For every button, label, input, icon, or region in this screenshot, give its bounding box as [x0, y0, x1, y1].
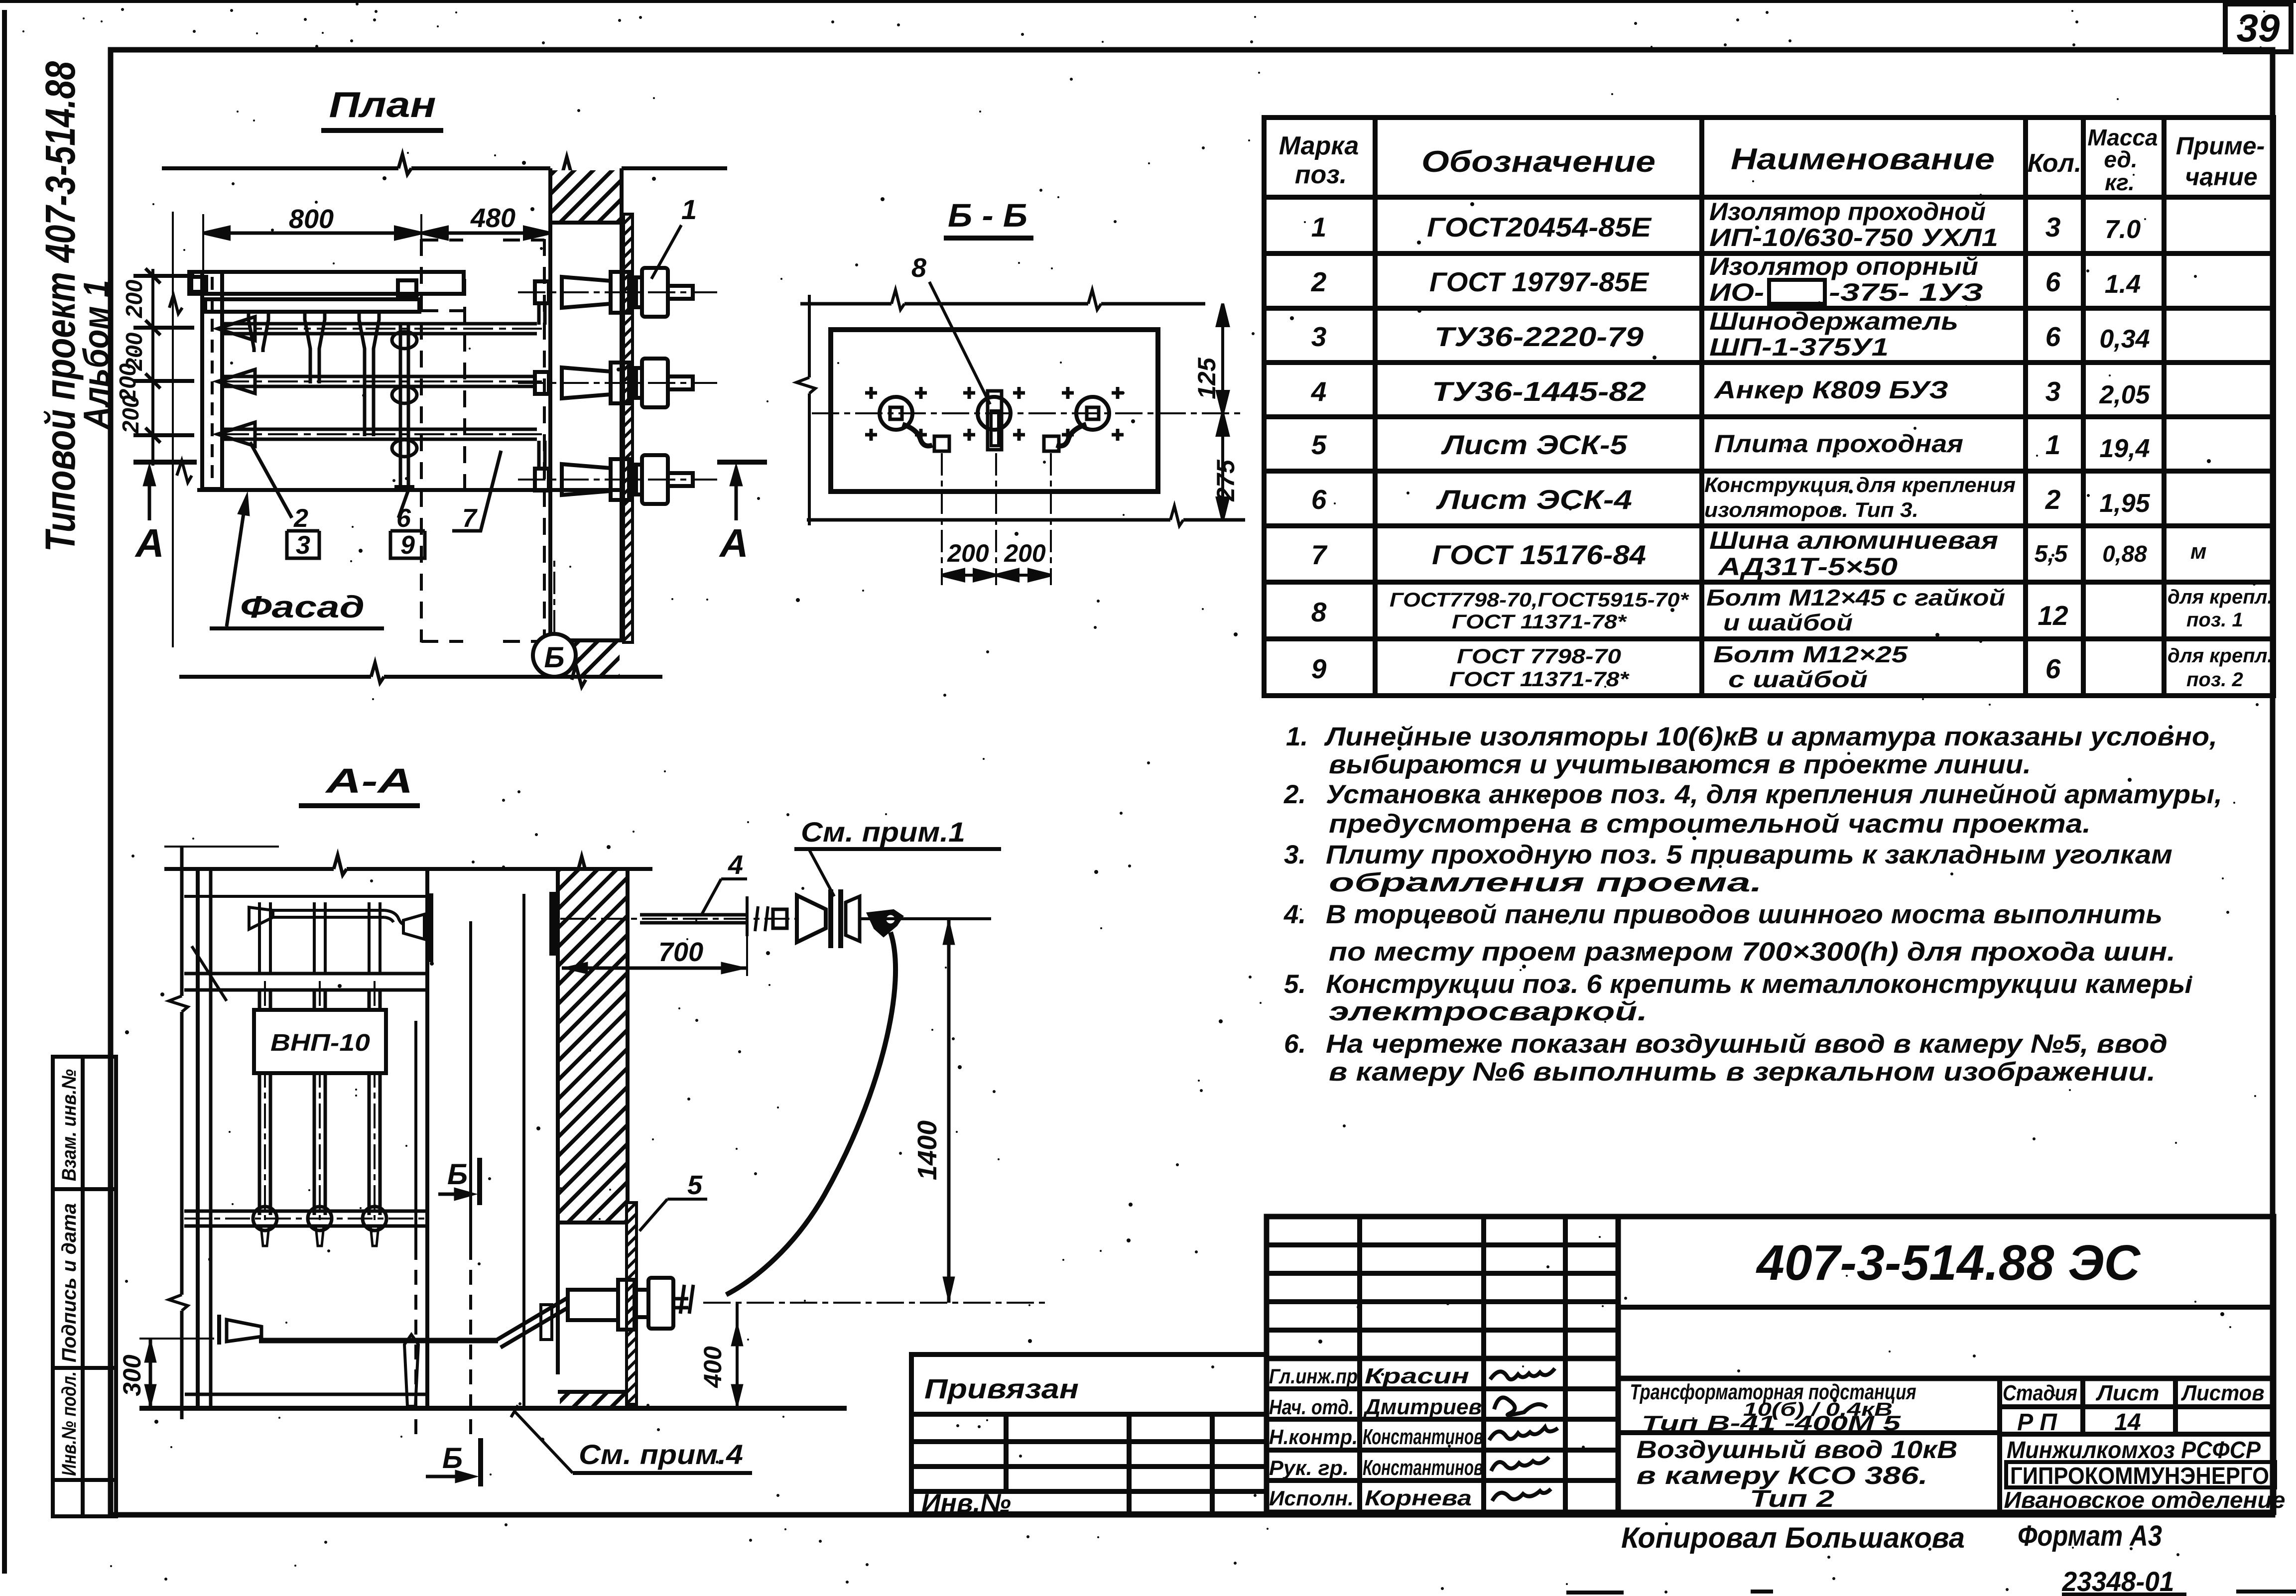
svg-text:Минжилкомхоз РСФСР: Минжилкомхоз РСФСР — [2007, 1437, 2261, 1464]
svg-text:Б: Б — [544, 641, 564, 674]
svg-text:и шайбой: и шайбой — [1723, 610, 1853, 635]
diagonal brace — [192, 946, 227, 1001]
organization — [2004, 1437, 2286, 1513]
busbar row 3 — [218, 422, 548, 446]
plate outline — [831, 330, 1158, 491]
bottom bus and cone — [185, 1298, 569, 1406]
svg-text:2: 2 — [293, 504, 308, 533]
privyazan box — [911, 1354, 1267, 1514]
svg-text:Б - Б: Б - Б — [948, 197, 1027, 234]
signature rows — [1267, 1386, 1618, 1391]
svg-text:Взам. инв.№: Взам. инв.№ — [58, 1069, 80, 1181]
stadia list listov — [2080, 1378, 2085, 1434]
svg-text:См. прим.4: См. прим.4 — [579, 1439, 743, 1470]
dashed hidden lines — [416, 921, 471, 1439]
svg-text:9: 9 — [400, 531, 415, 560]
svg-text:3: 3 — [1311, 321, 1327, 352]
svg-text:обрамления проема.: обрамления проема. — [1329, 868, 1762, 897]
svg-text:3: 3 — [2045, 212, 2061, 243]
svg-text:5: 5 — [1311, 429, 1327, 460]
svg-text:Приме-: Приме- — [2176, 132, 2265, 160]
svg-text:Обозначение: Обозначение — [1421, 145, 1656, 178]
small square symbol in row 2 name — [1769, 280, 1825, 304]
dim 200 200 — [942, 570, 1051, 581]
right support поз.6 — [392, 323, 417, 487]
plan bottom boundary line — [179, 663, 662, 687]
dimension 800/480 — [203, 214, 550, 329]
signature names — [1363, 1364, 1483, 1510]
svg-text:Тип В-41 -400М 5: Тип В-41 -400М 5 — [1642, 1411, 1901, 1435]
svg-text:Болт М12×25: Болт М12×25 — [1713, 641, 1909, 667]
svg-text:Константинов: Константинов — [1363, 1425, 1483, 1449]
svg-text:9: 9 — [1311, 653, 1327, 684]
flexible jumper curve — [726, 932, 895, 1295]
col 1 position numbers — [1311, 212, 1328, 684]
svg-text:для крепл.: для крепл. — [2168, 645, 2273, 667]
hidden dashed rectangle of frame — [421, 239, 544, 642]
svg-text:-375- 1УЗ: -375- 1УЗ — [1829, 278, 1983, 306]
svg-text:6: 6 — [1311, 484, 1327, 515]
svg-text:19,4: 19,4 — [2099, 434, 2150, 463]
svg-text:Дмитриев: Дмитриев — [1363, 1395, 1482, 1419]
svg-text:Корнева: Корнева — [1365, 1486, 1472, 1510]
svg-text:ИО-: ИО- — [1709, 278, 1764, 306]
svg-text:с шайбой: с шайбой — [1728, 666, 1868, 692]
svg-text:Шинодержатель: Шинодержатель — [1709, 307, 1958, 335]
col 2 designations — [1390, 212, 1690, 691]
busbar row 1 — [218, 317, 548, 341]
signatures squiggles — [1489, 1368, 1558, 1501]
product name — [1630, 1380, 1958, 1512]
svg-text:План: План — [329, 85, 436, 125]
svg-text:Установка анкеров поз. 4, дл: Установка анкеров поз. 4, для крепления … — [1326, 780, 2222, 809]
svg-text:3: 3 — [296, 531, 310, 560]
svg-text:4: 4 — [1311, 376, 1327, 407]
svg-text:800: 800 — [289, 204, 334, 234]
svg-text:ГОСТ 11371-78*: ГОСТ 11371-78* — [1452, 611, 1628, 633]
dim 125 / 275 right — [1217, 304, 1228, 520]
svg-text:3: 3 — [2045, 376, 2061, 407]
svg-text:Лист ЭСК-4: Лист ЭСК-4 — [1435, 484, 1632, 515]
bolt group left — [880, 397, 949, 451]
lower bushing through plate — [568, 1278, 1046, 1330]
col 3 names — [1704, 198, 2016, 692]
svg-text:4: 4 — [728, 850, 743, 880]
svg-text:125: 125 — [1193, 357, 1221, 399]
dim 1400 — [943, 919, 955, 1303]
svg-text:2: 2 — [2045, 484, 2061, 515]
ВНП-10 box — [254, 1010, 386, 1073]
left dim chain 200s — [133, 212, 194, 647]
svg-text:м: м — [2190, 539, 2207, 564]
wall band verticals — [550, 168, 622, 677]
svg-text:ВНП-10: ВНП-10 — [270, 1030, 370, 1056]
svg-text:7: 7 — [1311, 539, 1328, 570]
svg-text:6: 6 — [396, 504, 411, 533]
svg-text:электросваркой.: электросваркой. — [1329, 997, 1648, 1026]
top bar of structure — [189, 272, 464, 312]
svg-text:407-3-514.88 ЭС: 407-3-514.88 ЭС — [1756, 1235, 2141, 1291]
svg-text:Конструкция для крепления: Конструкция для крепления — [1704, 473, 2016, 496]
embedded plate on wall face — [426, 893, 433, 962]
dim 400 — [731, 1303, 743, 1408]
svg-text:Инв.№: Инв.№ — [921, 1489, 1011, 1518]
svg-text:А: А — [134, 521, 164, 565]
svg-text:Анкер К809 БУЗ: Анкер К809 БУЗ — [1713, 376, 1948, 404]
svg-text:Копировал Большакова: Копировал Большакова — [1621, 1522, 1965, 1554]
col 5 mass — [2099, 215, 2150, 567]
svg-text:1400: 1400 — [912, 1120, 942, 1180]
svg-text:Исполн.: Исполн. — [1269, 1486, 1354, 1510]
svg-text:Константинов: Константинов — [1363, 1456, 1483, 1480]
table header texts — [1279, 124, 2265, 195]
svg-text:Н.контр.: Н.контр. — [1269, 1425, 1358, 1449]
svg-text:1,95: 1,95 — [2099, 489, 2150, 518]
svg-text:Изолятор опорный: Изолятор опорный — [1709, 252, 1978, 280]
svg-text:1: 1 — [681, 194, 697, 225]
svg-text:в камеру КСО 386.: в камеру КСО 386. — [1637, 1462, 1928, 1489]
svg-text:275: 275 — [1212, 459, 1240, 502]
svg-text:Кол.: Кол. — [2028, 149, 2082, 178]
scan top edge line — [0, 0, 2296, 3]
product cells — [1997, 1378, 2002, 1512]
svg-text:кг.: кг. — [2105, 169, 2135, 195]
svg-text:Стадия: Стадия — [2003, 1381, 2077, 1405]
hanging insulator funnels — [249, 312, 379, 436]
bottom boundary line — [807, 506, 1245, 526]
passage plate поз.5 in section — [627, 1203, 637, 1404]
svg-text:для крепл.: для крепл. — [2168, 586, 2273, 608]
svg-text:Плиту проходную поз. 5 прива: Плиту проходную поз. 5 приварить к закла… — [1326, 840, 2172, 869]
svg-text:Листов: Листов — [2181, 1381, 2265, 1405]
parts table grid — [1264, 118, 2274, 696]
svg-text:в камеру №6 выполнить в з: в камеру №6 выполнить в зеркальном изобр… — [1329, 1057, 2156, 1087]
svg-text:Нач. отд.: Нач. отд. — [1269, 1395, 1354, 1419]
horizontal centerline — [812, 412, 1245, 414]
svg-text:1.: 1. — [1286, 722, 1308, 751]
svg-text:Тип 2: Тип 2 — [1750, 1486, 1834, 1512]
section A marks — [133, 461, 767, 520]
left break line — [180, 847, 184, 996]
svg-text:Рук. гр.: Рук. гр. — [1269, 1456, 1349, 1479]
svg-text:Конструкции поз. 6 крепить к: Конструкции поз. 6 крепить к металлоконс… — [1326, 970, 2192, 999]
dim 300 — [139, 1339, 214, 1408]
busbar row 2 — [218, 369, 548, 393]
svg-text:Изолятор проходной: Изолятор проходной — [1709, 198, 1986, 226]
top bus — [273, 909, 384, 912]
svg-text:выбираются и учитываются в пр: выбираются и учитываются в проекте линии… — [1329, 750, 2031, 779]
three vertical busbar columns — [259, 981, 380, 1220]
svg-text:7: 7 — [462, 504, 478, 533]
wall hatch top block — [550, 170, 624, 223]
svg-text:200: 200 — [121, 279, 147, 318]
svg-text:А: А — [719, 521, 749, 565]
svg-text:Красин: Красин — [1365, 1364, 1469, 1388]
svg-text:4.: 4. — [1283, 900, 1306, 929]
left extension line — [796, 295, 815, 525]
svg-text:Наименование: Наименование — [1731, 142, 1995, 176]
busbar column stubs above member — [259, 902, 380, 974]
svg-text:8: 8 — [911, 253, 926, 283]
svg-text:Ивановское отделение: Ивановское отделение — [2004, 1487, 2286, 1513]
svg-text:2: 2 — [1311, 266, 1327, 297]
vertical trace lines — [942, 453, 1051, 585]
signature roles — [1269, 1364, 1358, 1510]
svg-text:480: 480 — [470, 203, 515, 233]
svg-text:Б: Б — [447, 1158, 468, 1191]
big number cell underline — [1618, 1305, 2274, 1310]
svg-text:ГОСТ 11371-78*: ГОСТ 11371-78* — [1449, 667, 1630, 691]
svg-text:5.: 5. — [1284, 970, 1306, 999]
bolt group right — [1044, 397, 1109, 451]
svg-text:0,88: 0,88 — [2102, 541, 2147, 567]
svg-text:ГОСТ7798-70,ГОСТ5915-70*: ГОСТ7798-70,ГОСТ5915-70* — [1390, 589, 1690, 611]
svg-text:8: 8 — [1311, 597, 1327, 627]
svg-text:Фасад: Фасад — [240, 590, 365, 624]
svg-text:Альбом 1: Альбом 1 — [77, 280, 117, 430]
svg-text:23348-01: 23348-01 — [2062, 1566, 2174, 1596]
lower rail with rollers — [184, 1207, 427, 1246]
title block outer — [1267, 1217, 2274, 1512]
svg-text:ТУ36-2220-79: ТУ36-2220-79 — [1434, 321, 1644, 352]
insulator on rod — [797, 889, 860, 948]
wall top edge line — [162, 154, 727, 179]
svg-text:5,5: 5,5 — [2035, 541, 2068, 567]
svg-text:3.: 3. — [1284, 840, 1306, 869]
svg-text:Гл.инж.пр: Гл.инж.пр — [1269, 1364, 1358, 1388]
clamp / hook — [560, 910, 991, 936]
signature table verticals — [1357, 1217, 1362, 1512]
svg-text:1: 1 — [1311, 212, 1327, 243]
upper empty rows — [1267, 1242, 1618, 1247]
svg-text:Р П: Р П — [2017, 1409, 2057, 1436]
svg-text:поз.: поз. — [1295, 160, 1347, 189]
left margin boxes — [53, 1057, 116, 1516]
svg-text:В торцевой панели приводов: В торцевой панели приводов шинного моста… — [1326, 900, 2163, 929]
passage plate поз.5 strip — [624, 214, 633, 642]
svg-text:Инв.№ подл.: Инв.№ подл. — [58, 1371, 80, 1476]
bolt group middle — [978, 391, 1011, 450]
svg-text:6: 6 — [2045, 266, 2061, 297]
svg-text:12: 12 — [2038, 600, 2068, 631]
svg-text:АД31Т-5×50: АД31Т-5×50 — [1717, 553, 1898, 581]
svg-text:5: 5 — [687, 1170, 703, 1200]
cabinet internals — [169, 847, 524, 1419]
col 4 qty — [2035, 212, 2068, 684]
top boundary line with breaks — [800, 290, 1205, 310]
svg-text:поз. 1: поз. 1 — [2186, 609, 2243, 631]
bushing 2 — [518, 359, 717, 407]
anchor rod поз.4 — [640, 896, 787, 936]
svg-text:200: 200 — [118, 395, 143, 434]
svg-text:200: 200 — [1004, 539, 1046, 567]
svg-text:2.: 2. — [1283, 780, 1306, 809]
svg-text:А-А: А-А — [325, 761, 413, 800]
wall band — [558, 869, 631, 1408]
wall hatch bottom block — [550, 640, 624, 675]
svg-text:14: 14 — [2114, 1409, 2141, 1436]
svg-text:ТУ36-1445-82: ТУ36-1445-82 — [1432, 376, 1646, 407]
svg-text:На чертеже показан воздушны: На чертеже показан воздушный ввод в каме… — [1326, 1029, 2168, 1059]
svg-text:Лист: Лист — [2095, 1381, 2159, 1405]
dim 700 — [562, 936, 747, 976]
cabinet frame verticals — [196, 869, 200, 1408]
svg-text:по месту проем размером 70: по месту проем размером 700×300(h) для п… — [1329, 937, 2175, 967]
svg-text:200: 200 — [947, 539, 989, 567]
bushing 3 — [518, 441, 717, 504]
bushing 1 — [518, 268, 717, 325]
svg-text:6: 6 — [2045, 321, 2061, 352]
svg-text:ГОСТ 15176-84: ГОСТ 15176-84 — [1432, 539, 1646, 570]
top boundary line — [164, 847, 652, 878]
svg-text:ГОСТ 7798-70: ГОСТ 7798-70 — [1457, 644, 1621, 668]
stadia headers — [2003, 1381, 2265, 1436]
svg-text:Лист ЭСК-5: Лист ЭСК-5 — [1440, 429, 1628, 460]
svg-text:Подпись и дата: Подпись и дата — [58, 1203, 80, 1362]
svg-text:изоляторов. Тип 3.: изоляторов. Тип 3. — [1704, 498, 1918, 521]
svg-text:ИП-10/630-750 УХЛ1: ИП-10/630-750 УХЛ1 — [1709, 224, 1998, 251]
svg-text:ед.: ед. — [2104, 146, 2137, 172]
ground line — [139, 1406, 847, 1411]
svg-text:Воздушный ввод 10кВ: Воздушный ввод 10кВ — [1637, 1436, 1958, 1464]
col 6 notes — [2168, 539, 2273, 691]
svg-text:39: 39 — [2237, 6, 2280, 50]
svg-text:Б: Б — [442, 1442, 463, 1474]
svg-text:2,05: 2,05 — [2099, 380, 2150, 409]
svg-text:1: 1 — [2045, 429, 2061, 460]
sheet number box 39 — [2225, 4, 2291, 52]
svg-text:Линейные изоляторы 10(6)кВ и а: Линейные изоляторы 10(6)кВ и арматура по… — [1324, 722, 2217, 751]
svg-text:См. прим.1: См. прим.1 — [801, 816, 965, 848]
svg-text:ГОСТ 19797-85Е: ГОСТ 19797-85Е — [1429, 266, 1650, 297]
svg-text:Марка: Марка — [1279, 131, 1359, 160]
scan left edge bar — [2, 10, 7, 1574]
svg-text:300: 300 — [118, 1354, 146, 1396]
svg-text:1.4: 1.4 — [2105, 270, 2141, 299]
svg-text:ШП-1-375У1: ШП-1-375У1 — [1709, 333, 1889, 361]
svg-text:Болт М12×45 с гайкой: Болт М12×45 с гайкой — [1706, 585, 2005, 611]
circled Б node — [533, 634, 576, 677]
svg-text:предусмотрена в строительной: предусмотрена в строительной части проек… — [1329, 809, 2091, 839]
left vertical channel — [197, 272, 228, 490]
svg-text:Шина алюминиевая: Шина алюминиевая — [1709, 526, 1998, 554]
svg-text:6.: 6. — [1284, 1029, 1306, 1059]
top horizontal members — [184, 895, 426, 898]
svg-text:ГОСТ20454-85Е: ГОСТ20454-85Е — [1427, 212, 1652, 243]
svg-text:Привязан: Привязан — [924, 1373, 1079, 1404]
svg-text:0,34: 0,34 — [2099, 325, 2150, 354]
structure bottom edge — [202, 488, 623, 492]
svg-text:чание: чание — [2185, 163, 2258, 191]
svg-text:6: 6 — [2045, 653, 2061, 684]
svg-text:поз. 2: поз. 2 — [2186, 669, 2243, 691]
svg-text:Формат А3: Формат А3 — [2018, 1520, 2162, 1552]
svg-text:400: 400 — [699, 1346, 727, 1388]
svg-text:700: 700 — [658, 937, 703, 967]
svg-text:7.0: 7.0 — [2105, 215, 2141, 244]
